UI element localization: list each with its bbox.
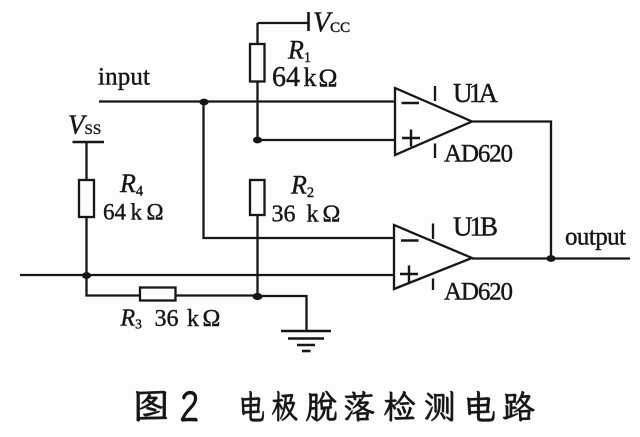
wire Vcc rail xyxy=(258,22,309,24)
svg-text:R3: R3 xyxy=(120,306,143,332)
node A junction (R1-R2) xyxy=(253,137,262,144)
svg-text:VSS: VSS xyxy=(68,110,101,140)
svg-text:R2: R2 xyxy=(290,171,314,202)
wire left rail to U1B non-inverting input xyxy=(20,274,394,276)
wire node C to ground xyxy=(258,296,307,331)
svg-text:R4: R4 xyxy=(119,169,144,200)
svg-text:U1B: U1B xyxy=(453,212,498,242)
node C junction (R3-R2-ground) xyxy=(253,293,263,300)
power VSS terminal tick xyxy=(73,141,105,144)
resistor R1 xyxy=(250,23,265,140)
svg-text:VCC: VCC xyxy=(313,8,350,39)
node input junction xyxy=(199,99,208,106)
svg-text:output: output xyxy=(565,224,626,251)
svg-text:AD620: AD620 xyxy=(444,141,513,168)
svg-text:AD620: AD620 xyxy=(444,279,513,306)
wire node A to U1A non-inverting input xyxy=(258,139,396,141)
resistor R3 xyxy=(140,288,258,301)
wire U1B output to output terminal xyxy=(472,257,630,259)
power VCC terminal tick xyxy=(307,12,310,31)
svg-text:64kΩ: 64kΩ xyxy=(272,62,337,93)
caption: figure 2 electrode drop-off detection circuit xyxy=(136,391,535,422)
wire input line to U1A inverting input xyxy=(99,100,395,102)
svg-text:36kΩ: 36kΩ xyxy=(155,306,221,332)
node B junction (left rail - R4) xyxy=(82,272,91,279)
svg-text:64kΩ: 64kΩ xyxy=(103,200,164,225)
svg-text:36kΩ: 36kΩ xyxy=(272,202,341,228)
svg-text:U1A: U1A xyxy=(453,78,499,108)
node output junction xyxy=(546,255,555,262)
svg-text:input: input xyxy=(98,64,150,91)
resistor R2 xyxy=(250,180,265,297)
op-amp U1A xyxy=(395,86,472,158)
wire from input node down to U1B level xyxy=(204,102,395,238)
resistor R4 xyxy=(79,142,94,276)
ground xyxy=(281,331,331,351)
wire U1A output down to output node xyxy=(472,122,551,259)
wire from node B down to R3 xyxy=(87,276,141,296)
op-amp U1B xyxy=(394,224,472,291)
